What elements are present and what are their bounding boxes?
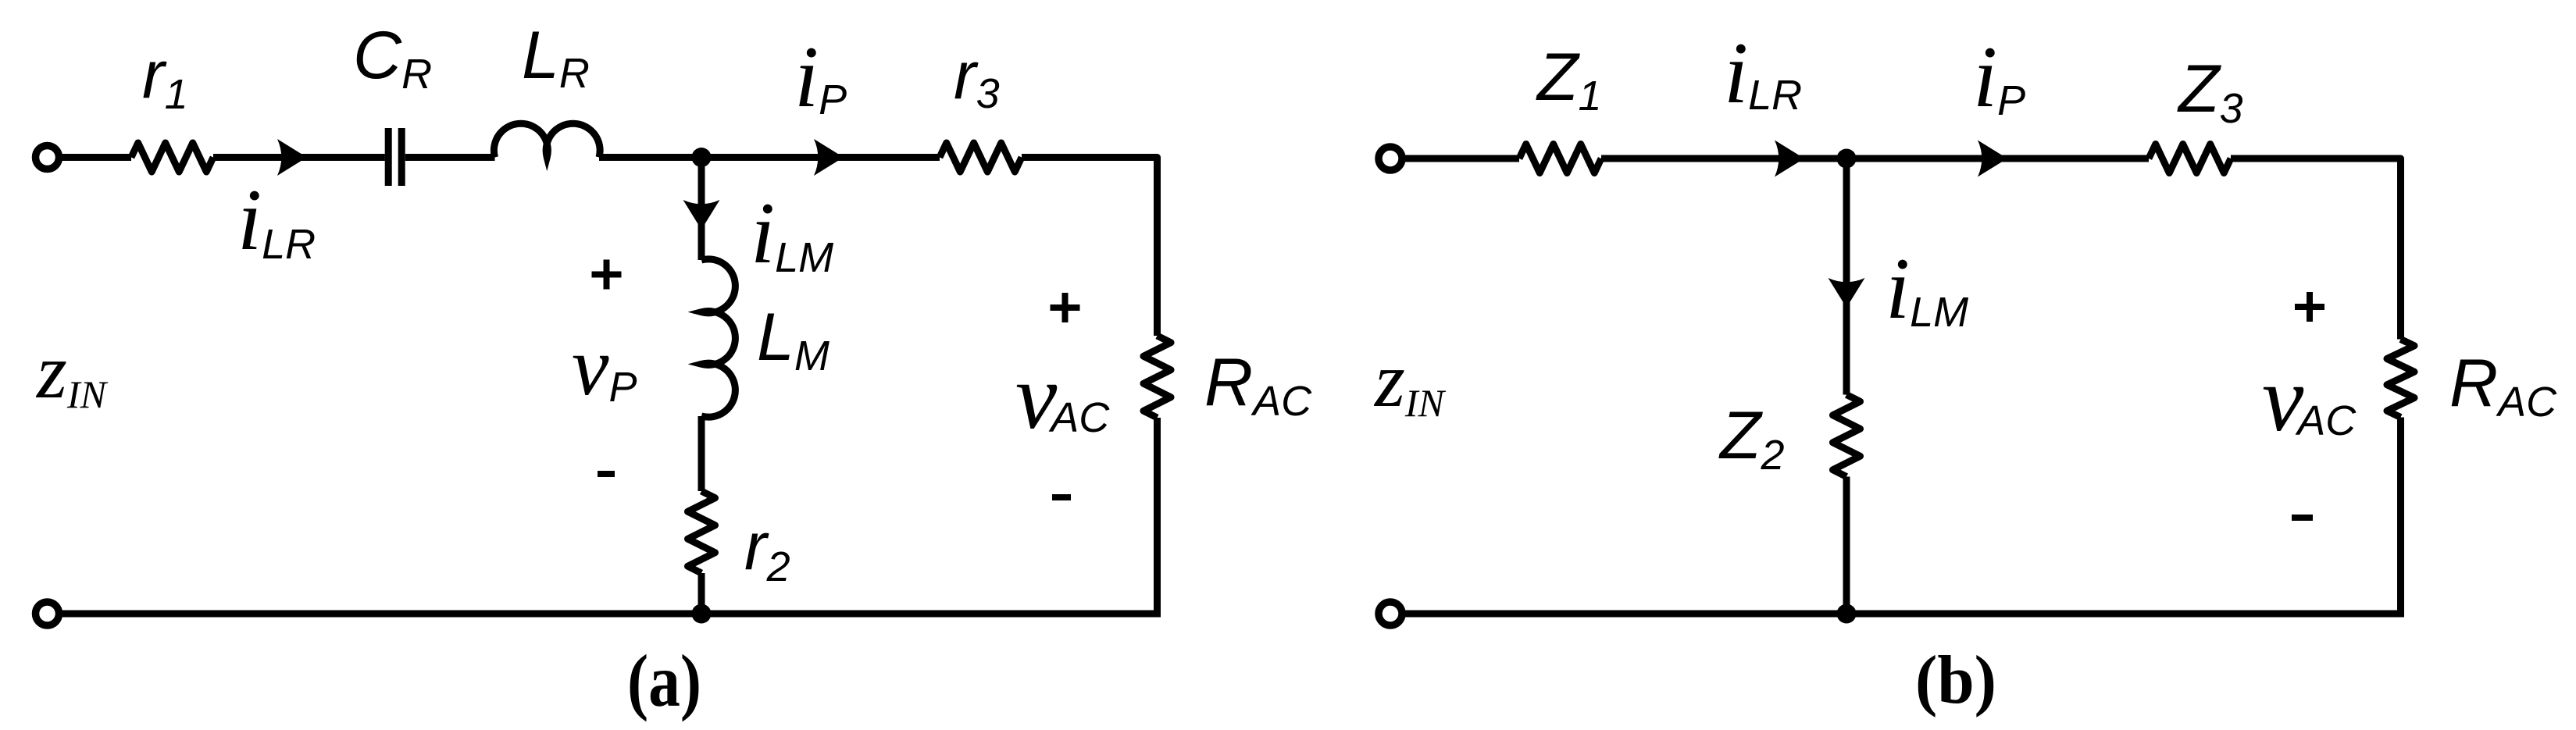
- wire: [698, 573, 705, 614]
- wire (a middle branch): [698, 158, 705, 261]
- resistor Z3: [2149, 144, 2231, 173]
- svg-text:(a): (a): [627, 639, 701, 722]
- wire: [2231, 158, 2401, 340]
- arrow i_P (b): [1978, 141, 2007, 177]
- wire: [61, 154, 131, 161]
- resistor R_AC (a): [1144, 336, 1171, 418]
- wire: [698, 416, 705, 491]
- wire: [1022, 158, 1158, 337]
- label plus v_P: [592, 260, 622, 290]
- svg-text:r1: r1: [142, 37, 188, 118]
- svg-text:(b): (b): [1915, 643, 1996, 718]
- svg-text:CR: CR: [353, 18, 432, 98]
- arrow i_LM (a): [683, 200, 720, 230]
- arrow i_LM (b): [1829, 278, 1865, 308]
- wire: [213, 154, 385, 161]
- resistor r1: [131, 143, 213, 172]
- svg-text:iLM: iLM: [751, 185, 833, 282]
- inductor L_R: [494, 123, 600, 157]
- node N4 (b, bottom): [1837, 604, 1857, 624]
- wire (a bottom): [61, 611, 1161, 618]
- svg-text:Z2: Z2: [1718, 398, 1785, 479]
- svg-text:iLR: iLR: [1724, 25, 1802, 122]
- capacitor C_R: [388, 128, 401, 186]
- svg-text:iP: iP: [1973, 29, 2025, 126]
- label plus v_AC (a): [1051, 293, 1080, 322]
- svg-text:Z3: Z3: [2177, 52, 2243, 132]
- wire: [599, 154, 940, 161]
- node N3 (b): [1837, 149, 1857, 169]
- wire: [405, 154, 495, 161]
- wire (b bottom): [1404, 611, 2404, 618]
- resistor Z1: [1519, 144, 1601, 173]
- label minus v_P: [598, 471, 615, 477]
- svg-text:vAC: vAC: [1015, 344, 1110, 448]
- arrow i_LR (a): [277, 139, 307, 176]
- arrow i_LR (b): [1775, 141, 1804, 177]
- svg-text:RAC: RAC: [1204, 345, 1312, 425]
- wire: [2397, 418, 2404, 614]
- terminal T2 (a, bottom-left): [36, 602, 59, 625]
- resistor r2: [688, 491, 715, 573]
- inductor L_M: [701, 259, 735, 417]
- resistor r3: [940, 143, 1022, 172]
- wire: [1601, 155, 2149, 162]
- svg-text:iLM: iLM: [1886, 240, 1968, 337]
- svg-text:LM: LM: [757, 300, 830, 379]
- svg-text:r2: r2: [744, 509, 790, 590]
- terminal T4 (b, bottom-left): [1379, 602, 1402, 625]
- svg-text:RAC: RAC: [2449, 346, 2557, 426]
- wire: [1154, 418, 1161, 614]
- svg-text:vP: vP: [572, 321, 637, 413]
- svg-text:r3: r3: [954, 38, 1000, 117]
- label minus v_AC (a): [1052, 494, 1071, 500]
- wire: [1843, 477, 1850, 614]
- label plus v_AC (b): [2295, 292, 2324, 322]
- svg-text:LR: LR: [522, 18, 590, 97]
- node N2 (a, bottom): [692, 604, 712, 624]
- node N1 (a): [692, 148, 712, 167]
- resistor R_AC (b): [2387, 340, 2414, 418]
- svg-text:Z1: Z1: [1536, 40, 1602, 119]
- svg-text:zIN: zIN: [35, 328, 109, 416]
- svg-text:zIN: zIN: [1373, 337, 1447, 425]
- wire: [1404, 155, 1519, 162]
- label minus v_AC (b): [2292, 515, 2313, 521]
- svg-text:vAC: vAC: [2262, 347, 2357, 450]
- wire (b middle branch): [1843, 158, 1850, 395]
- terminal T3 (b, top-left): [1379, 147, 1402, 170]
- svg-text:iLR: iLR: [237, 172, 316, 269]
- svg-text:iP: iP: [794, 29, 847, 126]
- terminal T1 (a, top-left): [36, 146, 59, 169]
- arrow i_P (a): [814, 139, 844, 176]
- resistor Z2: [1833, 395, 1861, 477]
